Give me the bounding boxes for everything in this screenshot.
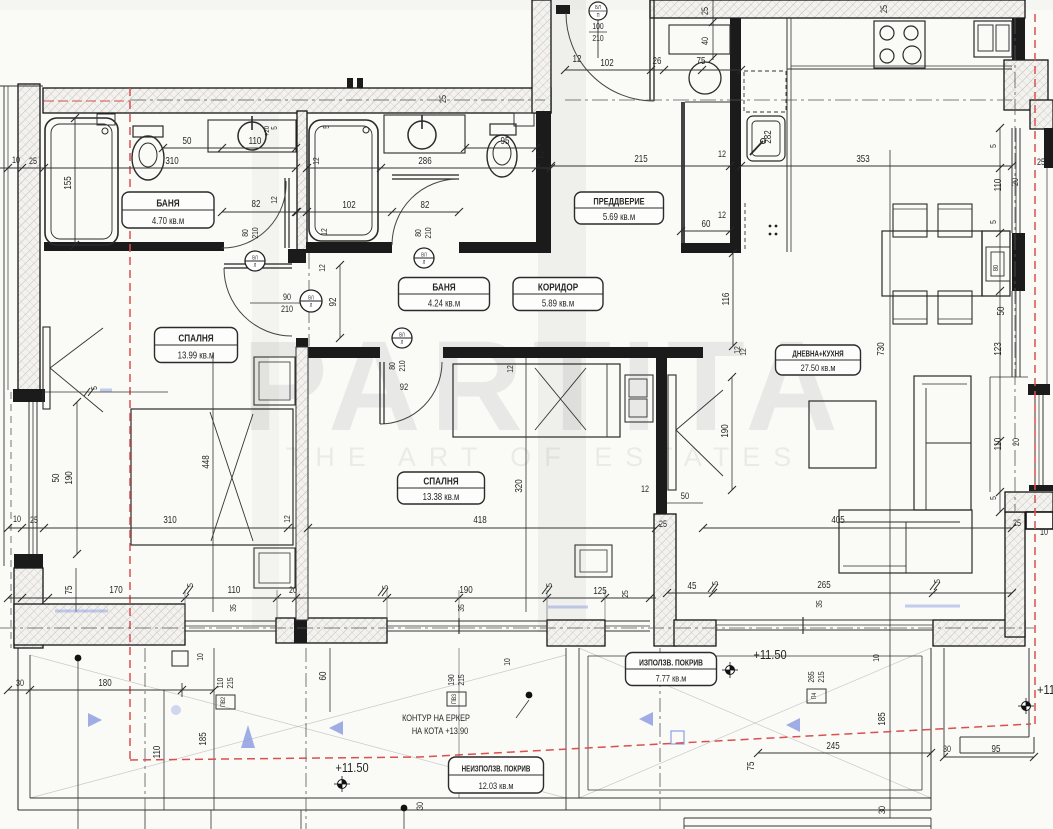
svg-text:75: 75 xyxy=(697,55,706,66)
svg-text:ВЛ: ВЛ xyxy=(421,252,426,259)
svg-text:ПРЕДДВЕРИЕ: ПРЕДДВЕРИЕ xyxy=(593,196,644,207)
svg-text:ИЗПОЛЗВ. ПОКРИВ: ИЗПОЛЗВ. ПОКРИВ xyxy=(639,658,703,668)
svg-text:THE ART OF ESTATES: THE ART OF ESTATES xyxy=(286,442,805,472)
svg-text:5.69 кв.м: 5.69 кв.м xyxy=(603,211,635,222)
svg-text:10: 10 xyxy=(13,514,21,524)
svg-text:190: 190 xyxy=(719,424,730,437)
svg-text:12: 12 xyxy=(732,346,742,354)
svg-text:75: 75 xyxy=(745,762,756,771)
svg-text:210: 210 xyxy=(250,227,260,238)
svg-text:10: 10 xyxy=(871,654,881,662)
svg-text:310: 310 xyxy=(165,155,178,166)
svg-text:П4: П4 xyxy=(812,692,819,699)
svg-text:СПАЛНЯ: СПАЛНЯ xyxy=(423,474,459,486)
svg-text:35: 35 xyxy=(228,604,238,612)
svg-text:50: 50 xyxy=(681,490,690,501)
svg-text:+11.50: +11.50 xyxy=(753,647,787,662)
svg-text:110: 110 xyxy=(215,678,225,689)
svg-text:110: 110 xyxy=(992,438,1003,451)
svg-text:ДНЕВНА+КУХНЯ: ДНЕВНА+КУХНЯ xyxy=(792,350,843,359)
svg-text:40: 40 xyxy=(700,37,710,45)
svg-text:35: 35 xyxy=(456,604,466,612)
svg-text:БЛ: БЛ xyxy=(595,5,601,12)
svg-text:60: 60 xyxy=(317,672,328,681)
svg-text:210: 210 xyxy=(281,304,293,314)
svg-text:282: 282 xyxy=(762,130,773,143)
svg-text:НЕИЗПОЛЗВ. ПОКРИВ: НЕИЗПОЛЗВ. ПОКРИВ xyxy=(462,765,531,774)
svg-text:353: 353 xyxy=(856,153,869,164)
svg-text:12: 12 xyxy=(573,53,582,64)
svg-text:СПАЛНЯ: СПАЛНЯ xyxy=(178,331,214,343)
svg-text:190: 190 xyxy=(459,584,472,595)
svg-text:12: 12 xyxy=(282,515,292,523)
svg-text:95: 95 xyxy=(501,135,510,146)
svg-text:210: 210 xyxy=(592,33,603,43)
svg-text:Л: Л xyxy=(423,259,426,266)
svg-text:25: 25 xyxy=(30,515,38,525)
svg-text:102: 102 xyxy=(342,199,355,210)
svg-text:КОНТУР НА ЕРКЕР: КОНТУР НА ЕРКЕР xyxy=(402,712,470,723)
svg-text:ПВ2: ПВ2 xyxy=(221,697,228,707)
svg-text:10: 10 xyxy=(1040,527,1048,537)
svg-text:Л: Л xyxy=(401,339,404,346)
svg-text:45: 45 xyxy=(688,580,697,591)
svg-text:116: 116 xyxy=(720,293,731,306)
svg-text:82: 82 xyxy=(421,199,430,210)
svg-text:5: 5 xyxy=(380,585,390,589)
svg-text:310: 310 xyxy=(163,514,176,525)
svg-text:80: 80 xyxy=(240,229,250,237)
svg-text:25: 25 xyxy=(29,156,37,166)
svg-text:30: 30 xyxy=(877,806,887,814)
svg-text:25: 25 xyxy=(620,590,630,598)
svg-text:245: 245 xyxy=(826,740,839,751)
svg-text:7.77 кв.м: 7.77 кв.м xyxy=(656,673,687,684)
svg-text:ПВ3: ПВ3 xyxy=(452,693,459,704)
svg-text:110: 110 xyxy=(228,584,241,595)
svg-text:92: 92 xyxy=(400,381,409,392)
svg-text:12: 12 xyxy=(319,228,329,236)
svg-text:5: 5 xyxy=(710,581,720,585)
svg-text:БАНЯ: БАНЯ xyxy=(156,196,179,208)
svg-text:5: 5 xyxy=(185,583,195,587)
svg-text:12: 12 xyxy=(718,210,726,220)
svg-text:265: 265 xyxy=(817,579,830,590)
svg-text:12: 12 xyxy=(311,157,321,165)
svg-text:286: 286 xyxy=(418,155,431,166)
svg-text:190: 190 xyxy=(446,674,456,685)
svg-text:180: 180 xyxy=(98,677,111,688)
svg-text:448: 448 xyxy=(200,455,211,468)
svg-text:265: 265 xyxy=(806,671,816,682)
svg-text:100: 100 xyxy=(592,21,603,31)
svg-text:БАНЯ: БАНЯ xyxy=(432,280,455,292)
svg-text:4.70 кв.м: 4.70 кв.м xyxy=(152,215,184,226)
svg-text:730: 730 xyxy=(875,342,886,355)
svg-text:5: 5 xyxy=(988,220,998,224)
svg-text:5: 5 xyxy=(932,579,942,583)
svg-text:25: 25 xyxy=(879,5,889,13)
svg-text:25: 25 xyxy=(438,95,448,103)
svg-text:110: 110 xyxy=(249,135,262,146)
svg-text:30: 30 xyxy=(16,678,24,688)
svg-text:5: 5 xyxy=(89,386,99,390)
svg-text:30: 30 xyxy=(415,802,425,810)
svg-text:60: 60 xyxy=(702,218,711,229)
svg-text:Л: Л xyxy=(254,262,257,269)
svg-text:+11.50: +11.50 xyxy=(335,760,369,775)
svg-text:25: 25 xyxy=(659,519,667,529)
svg-text:80: 80 xyxy=(992,264,1000,271)
svg-text:75: 75 xyxy=(63,586,74,595)
svg-text:12: 12 xyxy=(641,484,649,494)
svg-text:50: 50 xyxy=(995,307,1006,316)
svg-text:190: 190 xyxy=(63,471,74,484)
svg-text:ВЛ: ВЛ xyxy=(399,332,404,339)
svg-text:123: 123 xyxy=(992,342,1003,355)
svg-text:4.24 кв.м: 4.24 кв.м xyxy=(428,298,460,309)
svg-text:418: 418 xyxy=(473,514,486,525)
svg-text:170: 170 xyxy=(109,584,122,595)
svg-text:110: 110 xyxy=(992,179,1003,192)
svg-text:+11: +11 xyxy=(1037,682,1053,697)
svg-text:50: 50 xyxy=(50,474,61,483)
svg-text:12: 12 xyxy=(269,196,279,204)
svg-text:12: 12 xyxy=(536,150,544,160)
svg-text:25: 25 xyxy=(1037,157,1045,167)
svg-text:13.99 кв.м: 13.99 кв.м xyxy=(178,350,215,361)
svg-text:215: 215 xyxy=(225,677,235,688)
svg-text:185: 185 xyxy=(197,732,208,745)
svg-text:10: 10 xyxy=(12,155,20,165)
svg-text:12: 12 xyxy=(505,365,515,373)
svg-text:80: 80 xyxy=(387,362,397,370)
svg-text:13.38 кв.м: 13.38 кв.м xyxy=(423,491,460,502)
svg-text:80: 80 xyxy=(413,229,423,237)
svg-text:10: 10 xyxy=(195,653,205,661)
svg-text:5.89 кв.м: 5.89 кв.м xyxy=(542,298,574,309)
svg-text:ВЛ: ВЛ xyxy=(308,295,313,302)
svg-text:102: 102 xyxy=(600,57,613,68)
svg-text:5: 5 xyxy=(988,144,998,148)
svg-text:320: 320 xyxy=(513,479,524,492)
svg-text:92: 92 xyxy=(327,298,338,307)
svg-text:27.50 кв.м: 27.50 кв.м xyxy=(801,362,836,373)
svg-text:12.03 кв.м: 12.03 кв.м xyxy=(479,780,514,791)
svg-text:12: 12 xyxy=(718,149,726,159)
svg-text:П: П xyxy=(597,13,600,19)
svg-text:215: 215 xyxy=(816,671,826,682)
svg-text:12: 12 xyxy=(317,264,327,272)
svg-text:90: 90 xyxy=(283,292,291,302)
svg-text:215: 215 xyxy=(634,153,647,164)
svg-text:10: 10 xyxy=(502,658,512,666)
svg-text:26: 26 xyxy=(653,55,662,66)
svg-text:50: 50 xyxy=(183,135,192,146)
svg-text:25: 25 xyxy=(700,7,710,15)
svg-text:ВЛ: ВЛ xyxy=(252,255,257,262)
svg-text:КОРИДОР: КОРИДОР xyxy=(538,280,578,292)
svg-text:185: 185 xyxy=(876,712,887,725)
svg-text:30: 30 xyxy=(943,744,951,754)
svg-text:Л: Л xyxy=(310,302,313,309)
svg-text:95: 95 xyxy=(992,743,1001,754)
svg-text:5: 5 xyxy=(544,583,554,587)
svg-text:210: 210 xyxy=(423,227,433,238)
svg-text:125: 125 xyxy=(593,585,606,596)
svg-text:20: 20 xyxy=(1011,438,1021,446)
svg-text:25: 25 xyxy=(1013,518,1021,528)
svg-text:405: 405 xyxy=(831,514,844,525)
svg-text:+20: +20 xyxy=(263,126,271,136)
svg-text:155: 155 xyxy=(62,176,73,189)
svg-text:5: 5 xyxy=(988,496,998,500)
svg-text:215: 215 xyxy=(456,674,466,685)
svg-text:20: 20 xyxy=(1010,178,1020,186)
svg-text:82: 82 xyxy=(252,198,261,209)
svg-text:20: 20 xyxy=(289,585,297,595)
svg-text:5: 5 xyxy=(321,125,331,129)
svg-text:110: 110 xyxy=(151,746,162,759)
svg-text:НА КОТА +13.90: НА КОТА +13.90 xyxy=(412,725,469,736)
svg-text:210: 210 xyxy=(397,360,407,371)
svg-text:35: 35 xyxy=(814,600,824,608)
